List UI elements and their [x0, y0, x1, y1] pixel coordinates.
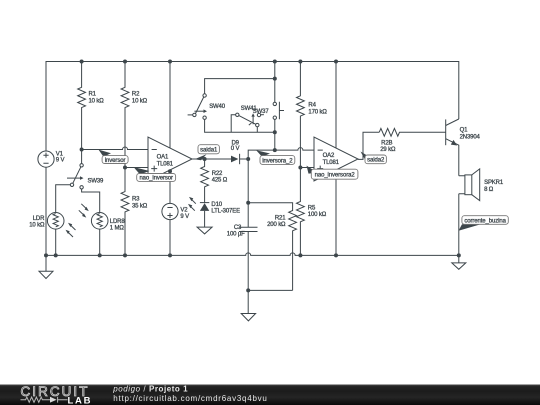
net label saida2 [361, 152, 387, 164]
wire top rail [46, 62, 459, 152]
svg-text:nao_inversor: nao_inversor [139, 176, 173, 182]
switch SW37 [253, 109, 270, 117]
node R21 tap [246, 201, 250, 205]
logo resistor-diode glyph [21, 397, 68, 403]
switch frame wire [205, 79, 275, 94]
svg-text:LDR: LDR [33, 216, 45, 222]
svg-text:podigo / Projeto 1: podigo / Projeto 1 [112, 385, 188, 394]
svg-text:100 µF: 100 µF [227, 232, 245, 238]
svg-text:200 kΩ: 200 kΩ [267, 222, 286, 228]
resistor R1 [78, 62, 105, 164]
wire inversora_2 column to C3 [247, 159, 249, 227]
pushbutton switch [273, 102, 284, 120]
svg-text:OA1: OA1 [157, 155, 169, 161]
wire nao_inversora2 net [300, 167, 314, 169]
node rail R2 [123, 60, 127, 64]
net label inversora_2 [256, 150, 295, 164]
node sw column [273, 148, 277, 152]
wire saida2 net [358, 132, 379, 159]
voltage source V2 [162, 203, 189, 255]
svg-text:SW39: SW39 [88, 178, 105, 184]
switch SW40 [188, 94, 226, 120]
resistor R4 [297, 62, 328, 168]
svg-text:corrente_buzina: corrente_buzina [464, 218, 506, 224]
switch SW41 [231, 106, 259, 132]
net label inversor [99, 150, 129, 164]
op-amp OA1 [148, 137, 192, 181]
node subrail [246, 288, 250, 292]
svg-text:9 V: 9 V [180, 214, 189, 220]
speaker SPKR1 [459, 169, 504, 256]
node frame top [273, 77, 277, 81]
node inversor [80, 148, 84, 152]
node rail R4 [298, 60, 302, 64]
node rail R3 [123, 253, 127, 257]
svg-text:2N3904: 2N3904 [460, 134, 481, 140]
svg-text:SPKR1: SPKR1 [484, 180, 504, 186]
svg-text:R4: R4 [308, 102, 316, 108]
photoresistor LDR [29, 213, 75, 256]
svg-text:425 Ω: 425 Ω [212, 178, 228, 184]
wire switch bottom row [205, 119, 275, 132]
svg-text:SW37: SW37 [253, 109, 270, 115]
capacitor C3 [227, 225, 258, 290]
wire nao_inversor net [125, 167, 148, 169]
op-amp OA2 [314, 137, 358, 181]
node nao_inversor [123, 166, 127, 170]
node swrow [273, 130, 277, 134]
BOTTOMBAR [0, 385, 540, 405]
svg-text:LTL-307EE: LTL-307EE [211, 209, 240, 215]
svg-text:SW40: SW40 [209, 104, 226, 110]
node rail V2 [168, 253, 172, 257]
svg-text:35 kΩ: 35 kΩ [132, 204, 148, 210]
net label corrente_buzina [459, 216, 509, 231]
svg-text:inversora_2: inversora_2 [262, 158, 293, 164]
node rail V1 [44, 253, 48, 257]
svg-text:8 Ω: 8 Ω [484, 187, 494, 193]
LED D10 [188, 197, 240, 227]
svg-text:saida1: saida1 [200, 148, 218, 154]
svg-text:1 MΩ: 1 MΩ [110, 225, 125, 231]
ground [39, 255, 53, 278]
wire inversor net [82, 147, 148, 150]
svg-text:R2: R2 [132, 92, 140, 98]
node rail OA1 [168, 60, 172, 64]
net label nao_inversora2 [307, 166, 358, 180]
resistor R5 [297, 168, 327, 256]
resistor R22 [201, 159, 228, 203]
svg-text:V2: V2 [180, 207, 188, 213]
svg-text:170 kΩ: 170 kΩ [308, 109, 327, 115]
svg-text:R21: R21 [275, 216, 286, 222]
svg-text:10 kΩ: 10 kΩ [132, 99, 148, 105]
svg-text:http://circuitlab.com/cmdr6av3: http://circuitlab.com/cmdr6av3q4bvu [113, 394, 267, 403]
node rail R1 [80, 60, 84, 64]
svg-text:R3: R3 [132, 197, 140, 203]
svg-text:D10: D10 [211, 202, 222, 208]
node nao_inversora2 [298, 166, 302, 170]
node rail OA2 [334, 60, 338, 64]
svg-text:100 kΩ: 100 kΩ [308, 212, 327, 218]
node inversora_2 [246, 157, 250, 161]
node saida1 R22 [203, 157, 207, 161]
svg-text:Q1: Q1 [460, 127, 469, 133]
svg-text:LAB: LAB [68, 395, 93, 405]
net label saida1 [195, 145, 220, 161]
wire OA1 V- pin to V2 [169, 170, 171, 203]
wire OA2 V+ pin [335, 62, 337, 149]
node rail LDR8 [98, 253, 102, 257]
svg-text:29 kΩ: 29 kΩ [380, 147, 396, 153]
wire below-rail node [248, 289, 292, 291]
svg-text:R22: R22 [212, 171, 223, 177]
svg-text:10 kΩ: 10 kΩ [89, 99, 105, 105]
svg-text:LDR8: LDR8 [110, 219, 126, 225]
svg-text:9 V: 9 V [56, 158, 65, 164]
svg-text:OA2: OA2 [323, 153, 335, 159]
node rail R5 [298, 253, 302, 257]
wire OA2 V- pin [335, 170, 337, 255]
svg-text:TL081: TL081 [157, 161, 174, 167]
svg-text:inversor: inversor [105, 158, 126, 164]
svg-text:0 V: 0 V [231, 146, 240, 152]
photoresistor LDR8 [79, 204, 126, 256]
node V2 pin [168, 169, 172, 173]
wire pushbutton column [274, 62, 276, 151]
diode D9 [231, 141, 240, 165]
svg-text:nao_inversora2: nao_inversora2 [315, 173, 356, 179]
svg-text:TL081: TL081 [323, 160, 340, 166]
resistor R21 [248, 203, 296, 291]
ground [452, 255, 466, 269]
ground C3 [241, 290, 255, 321]
wire SW39 to LDR [56, 185, 71, 213]
resistor R2B [379, 128, 446, 153]
svg-text:C3: C3 [234, 225, 242, 231]
net label nao_inversor [134, 167, 176, 182]
ground D10 [197, 227, 212, 234]
resistor R3 [121, 168, 148, 256]
wire bottom rail with hops [46, 253, 459, 256]
svg-text:R1: R1 [89, 92, 97, 98]
resistor R2 [121, 62, 148, 168]
node rail LDR [54, 253, 58, 257]
svg-text:saida2: saida2 [367, 158, 385, 164]
svg-text:R2B: R2B [381, 141, 392, 147]
svg-text:10 kΩ: 10 kΩ [29, 222, 45, 228]
wire SW39 to LDR8 [82, 189, 100, 213]
svg-text:R5: R5 [308, 206, 316, 212]
node rail SW [273, 60, 277, 64]
transistor Q1 [446, 119, 481, 176]
node rail OA2V [334, 253, 338, 257]
switch SW39 [67, 164, 104, 189]
voltage source V1 [38, 151, 65, 255]
node rail SPKR [457, 253, 461, 257]
wire inversora_2 net [248, 148, 314, 159]
wire OA1 V+ pin [169, 62, 171, 149]
wire saida1 net [192, 158, 248, 160]
